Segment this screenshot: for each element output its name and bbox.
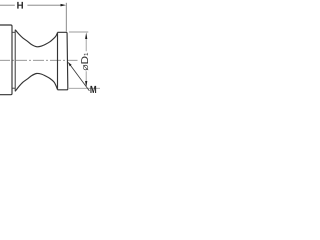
label M bbox=[90, 86, 96, 93]
label H bbox=[17, 2, 23, 9]
arrow D1 down bbox=[85, 81, 87, 88]
leader M arrow bbox=[68, 62, 72, 67]
groove top curve bbox=[15, 30, 57, 47]
left flange outline bbox=[0, 25, 12, 95]
arrow H right bbox=[61, 4, 67, 7]
extension line right face for H bbox=[65, 3, 67, 32]
centerline bbox=[0, 59, 78, 61]
dimension H line bbox=[0, 4, 61, 6]
groove edge circle right bbox=[57, 32, 59, 90]
arrow D1 up bbox=[85, 32, 87, 39]
right section outline bbox=[58, 32, 68, 90]
extension line D1 top bbox=[69, 31, 88, 33]
bottom shoulder line bbox=[12, 87, 15, 89]
top shoulder line bbox=[12, 31, 15, 33]
label diameter D1 bbox=[81, 53, 88, 71]
dimension D1 line bbox=[85, 39, 87, 82]
groove bottom curve bbox=[15, 73, 57, 91]
leader M line bbox=[70, 65, 89, 91]
extension line D1 bottom bbox=[69, 87, 100, 89]
groove edge circle left bbox=[14, 30, 16, 92]
